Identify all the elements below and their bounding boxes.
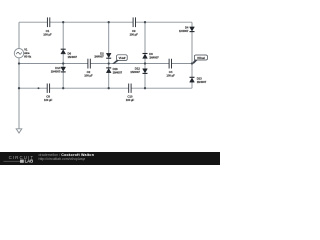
svg-text:100 µF: 100 µF: [43, 32, 52, 36]
diode D12: [143, 69, 148, 74]
watermark banner: [0, 152, 220, 165]
svg-text:1N4007: 1N4007: [130, 70, 140, 74]
svg-text:1N4007: 1N4007: [179, 29, 189, 33]
capacitor C1: [47, 17, 49, 27]
capacitor C8: [47, 84, 49, 93]
svg-text:100 µF: 100 µF: [166, 74, 175, 78]
junction node B top: [62, 21, 64, 23]
svg-text:http://circuitlab.com/c6vq4wqz: http://circuitlab.com/c6vq4wqz: [39, 157, 86, 161]
diode D13: [190, 77, 195, 82]
svg-text:100 µF: 100 µF: [129, 32, 138, 36]
wire left column top (source top lead): [18, 22, 20, 48]
junction node D top: [144, 21, 146, 23]
svg-text:100 µF: 100 µF: [84, 74, 93, 78]
svg-text:VFinal: VFinal: [197, 56, 205, 60]
wire column B mid rail to D14: [62, 64, 64, 68]
wire bottom rail middle segment: [50, 87, 129, 89]
diode D4: [190, 27, 195, 32]
wire right column mid rail to D13: [191, 64, 193, 78]
svg-text:1N4007: 1N4007: [113, 70, 123, 74]
svg-text:VHalf: VHalf: [119, 56, 126, 60]
wire column D D12 to bottom rail: [144, 73, 146, 88]
junction node E mid (VFinal): [191, 62, 193, 64]
junction node B bottom: [62, 87, 64, 89]
wire column C D2 to mid rail: [108, 58, 110, 63]
svg-text:100 µF: 100 µF: [126, 98, 135, 102]
diode D14: [61, 67, 66, 72]
CircuitLab logo: [9, 155, 35, 160]
wire column C mid rail to D16: [108, 64, 110, 68]
wire column B D6 to mid rail: [62, 54, 64, 64]
diode D2: [106, 53, 111, 58]
junction node bottom rail wire joint: [38, 87, 40, 89]
voltage source V1: [14, 49, 23, 58]
wire mid rail C2 to C4: [90, 63, 169, 65]
wire bottom rail left segment: [19, 87, 47, 89]
junction node B mid: [62, 62, 64, 64]
wire left column bottom rail to ground: [18, 88, 20, 129]
wire right column D4 to mid rail: [191, 32, 193, 64]
svg-text:60 Hz: 60 Hz: [24, 54, 32, 58]
node flag VFinal: [192, 55, 208, 64]
capacitor C4: [169, 59, 171, 69]
junction node left bottom rail: [18, 87, 20, 89]
capacitor C10: [129, 84, 131, 93]
wire column B D14 to bottom rail: [62, 72, 64, 88]
capacitor C2: [88, 59, 90, 69]
diode D16: [106, 68, 111, 73]
ground: [16, 129, 22, 133]
junction node C bottom: [108, 87, 110, 89]
wire column D mid rail to D12: [144, 64, 146, 69]
banner credit line: [39, 153, 95, 157]
junction node at source bottom: [18, 62, 20, 64]
capacitor C9: [133, 17, 135, 27]
wire right column top rail to D4: [191, 22, 193, 27]
svg-text:1N4007: 1N4007: [94, 54, 104, 58]
wire bottom rail right segment: [131, 87, 192, 89]
wire mid rail source to C2: [19, 63, 88, 65]
wire column D top rail to D3: [144, 22, 146, 53]
junction node D bottom: [144, 87, 146, 89]
wire column D D3 to mid rail: [144, 58, 146, 63]
wire top rail middle segment: [50, 21, 133, 23]
wire left column source bottom to mid rail: [18, 58, 20, 64]
svg-text:LAB: LAB: [25, 159, 34, 164]
junction node D mid: [144, 62, 146, 64]
diode D6: [61, 49, 66, 54]
svg-text:1N4007: 1N4007: [197, 80, 207, 84]
wire right column D13 to bottom rail: [191, 82, 193, 88]
wire top rail left segment: [19, 21, 47, 23]
wire left column mid rail to bottom rail: [18, 64, 20, 89]
svg-text:1N4007: 1N4007: [51, 69, 61, 73]
svg-text:1N4007: 1N4007: [68, 55, 78, 59]
diode D3: [143, 54, 148, 59]
svg-text:1N4007: 1N4007: [149, 56, 159, 60]
wire column B top rail to D6: [62, 22, 64, 49]
junction node C top: [108, 21, 110, 23]
node flag VHalf: [112, 55, 127, 64]
junction node C mid (VHalf): [108, 62, 110, 64]
wire column C D16 to bottom rail: [108, 73, 110, 89]
wire column C top rail to D2: [108, 22, 110, 53]
banner url line: [39, 157, 86, 161]
wire top rail right segment: [136, 21, 193, 23]
wire mid rail C4 to right column: [172, 63, 193, 65]
svg-text:100 µF: 100 µF: [44, 98, 53, 102]
